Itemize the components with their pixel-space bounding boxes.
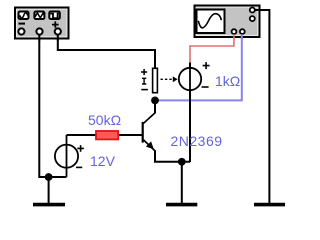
- wire: 50k resistor to transistor base: [118, 134, 143, 136]
- wire: emitter to emitter node: [155, 150, 190, 162]
- wire stub: scope ground terminal: [255, 9, 262, 11]
- function generator terminal common: [36, 28, 42, 34]
- svg-text:12V: 12V: [90, 153, 116, 169]
- oscilloscope ground terminal: [250, 8, 255, 13]
- wire: scope channel A (red) to CCVS top: [190, 34, 234, 63]
- wire: CCVS bottom lead to emitter wire: [189, 63, 191, 163]
- wire: function generator common to bottom node: [39, 35, 66, 177]
- CCVS sensing element: [153, 68, 158, 92]
- wire stub: function generator common terminal: [38, 35, 40, 41]
- resistor R 50k: [96, 131, 118, 139]
- wire: scope channel B (blue) to collector node: [155, 34, 242, 101]
- function generator triangle button: [34, 12, 44, 20]
- oscilloscope channel A terminal: [232, 29, 237, 34]
- ground: bottom-right: [254, 203, 285, 207]
- node: collector junction: [151, 97, 159, 105]
- svg-text:50kΩ: 50kΩ: [88, 112, 121, 128]
- function generator: [15, 8, 69, 39]
- voltage source - label: [76, 166, 82, 168]
- oscilloscope channel B terminal: [240, 29, 245, 34]
- function generator minus label: [19, 23, 26, 25]
- CCVS source circle: [179, 68, 201, 90]
- wire: 12V source vertical lead: [66, 135, 68, 177]
- svg-text:2N2369: 2N2369: [171, 133, 223, 149]
- wire stub: scope channel A terminal: [233, 34, 235, 39]
- function generator sine button: [19, 12, 29, 20]
- wire: 12V + to 50k resistor: [67, 134, 97, 136]
- function generator square button: [49, 12, 60, 20]
- oscilloscope trigger terminal: [250, 16, 255, 21]
- oscilloscope: [195, 6, 260, 38]
- wire stub: scope channel B terminal: [241, 34, 243, 39]
- label 1kOhm: [215, 73, 240, 89]
- CCVS - label: [202, 86, 209, 88]
- voltage source + label: [77, 145, 84, 152]
- svg-text:1kΩ: 1kΩ: [215, 73, 240, 89]
- transistor Q1 2N2369: [143, 113, 155, 151]
- ground: bottom-left: [33, 177, 65, 205]
- CCVS + label: [203, 62, 210, 69]
- CCVS sensing + label: [141, 69, 147, 75]
- label 12V: [90, 153, 116, 169]
- node: bottom-left junction: [45, 173, 53, 181]
- wire: function generator + output to sensing element top: [58, 35, 155, 68]
- CCVS sensing I label: [142, 78, 146, 84]
- wire: collector node to transistor: [154, 100, 156, 113]
- CCVS dashed control arrow: [161, 76, 178, 82]
- voltage source V1 12V: [55, 145, 78, 168]
- oscilloscope screen: [197, 10, 225, 34]
- wire stub: function generator + terminal: [57, 35, 59, 41]
- label 50kOhm: [88, 112, 121, 128]
- function generator terminal +: [55, 28, 61, 34]
- wire: scope ground terminal to right ground: [255, 10, 270, 203]
- CCVS sensing - label: [141, 89, 148, 91]
- node: emitter junction: [178, 158, 186, 166]
- function generator plus label: [52, 21, 59, 27]
- label 2N2369: [171, 133, 223, 149]
- function generator terminal -: [18, 28, 24, 34]
- ground: bottom-middle: [166, 162, 197, 205]
